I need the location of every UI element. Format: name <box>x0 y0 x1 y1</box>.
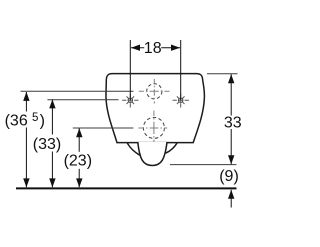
svg-text:(23): (23) <box>64 153 92 170</box>
svg-text:18: 18 <box>144 40 162 57</box>
svg-text:(9): (9) <box>219 168 239 185</box>
svg-text:(365): (365) <box>5 112 45 130</box>
svg-text:(33): (33) <box>33 136 61 153</box>
svg-text:33: 33 <box>224 115 242 132</box>
